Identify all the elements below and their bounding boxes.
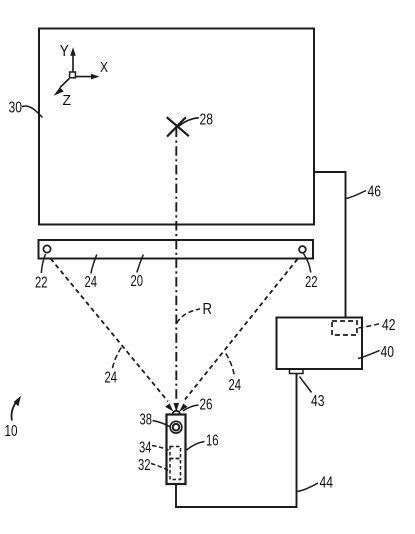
svg-text:46: 46 xyxy=(368,184,382,201)
svg-text:28: 28 xyxy=(200,112,214,129)
svg-text:44: 44 xyxy=(320,475,334,492)
svg-text:32: 32 xyxy=(138,457,151,474)
beam 24 right xyxy=(179,259,297,412)
module 42 dashed xyxy=(332,321,357,335)
label 20 xyxy=(131,255,144,291)
label 24 lower-right xyxy=(226,354,241,395)
svg-text:26: 26 xyxy=(200,397,213,414)
svg-text:20: 20 xyxy=(131,273,144,290)
device tip dome 26 xyxy=(173,411,180,415)
label R xyxy=(177,301,212,323)
svg-text:24: 24 xyxy=(105,370,118,387)
label 30 xyxy=(9,100,43,118)
pointing device 16 xyxy=(167,415,186,485)
Y axis xyxy=(70,47,76,71)
svg-text:34: 34 xyxy=(139,440,152,457)
label 32 xyxy=(138,457,169,474)
svg-text:24: 24 xyxy=(85,274,98,291)
label 22 right xyxy=(304,254,318,292)
ray R dash-dot line xyxy=(174,128,180,413)
svg-text:42: 42 xyxy=(382,317,396,334)
label 24 upper xyxy=(85,255,98,292)
module 34 dashed xyxy=(170,447,181,459)
label 43 xyxy=(300,377,325,411)
label 38 xyxy=(140,412,170,429)
label 28 xyxy=(179,112,214,129)
label 34 xyxy=(139,440,169,457)
sensor bar 20 xyxy=(39,240,314,259)
label 42 xyxy=(359,317,396,334)
Z axis xyxy=(54,79,70,96)
svg-text:R: R xyxy=(203,301,213,318)
label 26 xyxy=(183,397,213,414)
svg-text:Z: Z xyxy=(63,92,72,109)
emitter 22 left xyxy=(43,245,50,252)
X axis xyxy=(76,74,100,80)
display screen 30 xyxy=(39,29,314,225)
label 44 xyxy=(298,475,334,492)
label 16 xyxy=(187,433,219,451)
svg-text:40: 40 xyxy=(381,344,395,361)
label 24 lower-left xyxy=(105,348,122,387)
emitter 22 right xyxy=(299,246,306,253)
svg-text:38: 38 xyxy=(140,412,153,429)
cable 44 xyxy=(176,374,297,508)
origin square xyxy=(70,72,76,78)
svg-text:Y: Y xyxy=(60,43,69,60)
svg-text:43: 43 xyxy=(311,393,325,410)
target mark 28 xyxy=(167,117,189,136)
label 22 left xyxy=(35,254,48,292)
controller 40 xyxy=(277,318,363,370)
svg-text:10: 10 xyxy=(5,423,18,440)
label 46 xyxy=(347,184,382,201)
svg-text:16: 16 xyxy=(206,433,219,450)
svg-text:22: 22 xyxy=(35,275,48,292)
svg-text:X: X xyxy=(100,59,108,76)
cable 46 xyxy=(314,172,346,317)
svg-text:24: 24 xyxy=(229,377,242,394)
label 40 xyxy=(358,344,394,361)
module 32 dashed xyxy=(170,459,181,480)
sensor window 38 xyxy=(170,421,182,433)
svg-text:22: 22 xyxy=(305,274,318,291)
label 10 with arrow xyxy=(5,396,22,440)
beam 24 left xyxy=(51,259,174,412)
connector 43 xyxy=(290,369,304,374)
svg-text:30: 30 xyxy=(9,100,23,117)
